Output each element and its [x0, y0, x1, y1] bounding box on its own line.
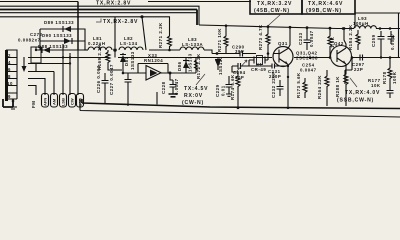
node x70 y63 [69, 62, 71, 64]
resistor R174 [236, 72, 240, 107]
node x63 y57 [62, 56, 64, 58]
voltage label TX:4.5V pointer [196, 74, 205, 85]
wire pin row y72 [28, 72, 54, 96]
ground C228 [169, 94, 178, 97]
svg-text:6: 6 [8, 67, 11, 72]
wire top bus A [0, 1, 251, 3]
node rail x344 [343, 27, 346, 30]
wire drop x78 [77, 2, 79, 51]
node x213 y53 [216, 52, 219, 55]
trimmer C294 [232, 63, 244, 72]
op-amp X33 triangle [146, 66, 161, 81]
wire X33 out down to C228 [170, 73, 173, 80]
svg-text:R184 2.2K: R184 2.2K [348, 24, 353, 50]
node y57 x330 [329, 56, 332, 59]
mode label AFN box [42, 94, 49, 108]
node emitter bus [287, 76, 289, 78]
svg-text:D86: D86 [177, 61, 182, 71]
resistor R273 [266, 27, 270, 54]
wire pin9 down [3, 99, 13, 107]
wire drop x355 to L93 line [354, 13, 356, 28]
resistor R264 [325, 70, 329, 106]
wire right column [389, 58, 391, 67]
svg-text:LS-133A: LS-133A [182, 42, 204, 47]
voltage label TX,RX:4.0V pointer [350, 78, 357, 87]
svg-text:0.0047: 0.0047 [390, 33, 395, 50]
svg-text:9: 9 [8, 94, 11, 99]
svg-text:Q31: Q31 [278, 41, 288, 46]
node pin9 [12, 100, 15, 103]
svg-text:10K: 10K [371, 83, 381, 88]
test point arrow [23, 57, 25, 70]
node rail x330 [329, 27, 332, 30]
svg-text:R271 2.2K: R271 2.2K [158, 22, 163, 48]
svg-text:FM: FM [31, 101, 36, 108]
svg-text:C259: C259 [371, 34, 376, 47]
wire L81 left [84, 49, 88, 51]
wire vert x78 [77, 50, 79, 95]
node rail x307 [306, 26, 309, 29]
svg-text:D89 1SS133: D89 1SS133 [44, 20, 74, 25]
diode D89 [64, 26, 71, 32]
svg-text:AFN: AFN [43, 98, 48, 106]
wire L83 leads [149, 50, 212, 54]
wire vert x115 from bus E [114, 17, 116, 48]
svg-text:CR-49: CR-49 [251, 67, 266, 72]
capacitor C298 [378, 31, 385, 58]
svg-text:1SS133: 1SS133 [218, 56, 223, 75]
svg-text:2: 2 [8, 53, 11, 58]
resistor R184 [356, 30, 360, 50]
svg-text:0.0047: 0.0047 [309, 30, 314, 47]
wire Q31 collector up [288, 27, 290, 48]
mode label USB box [77, 94, 84, 108]
svg-text:R264 22K: R264 22K [317, 75, 322, 99]
svg-text:C226 0.003: C226 0.003 [96, 65, 101, 93]
wire Q31 emitter down [287, 65, 289, 106]
wire right edge vertical [398, 13, 400, 58]
capacitor C290 [236, 51, 248, 57]
resistor R173 [303, 78, 307, 98]
wire Q42 emitter down [345, 64, 347, 70]
capacitor C229 [226, 76, 233, 96]
wire x352 down [345, 58, 352, 85]
wire pin row y85 [28, 86, 36, 96]
svg-text:0.0047: 0.0047 [174, 78, 179, 95]
node rail x268 [267, 25, 270, 28]
capacitor C265 [387, 86, 394, 98]
mode label LSB box [60, 94, 67, 108]
svg-text:(45B,CW-N): (45B,CW-N) [254, 8, 290, 14]
diode D86 [185, 57, 187, 73]
pointer to rail [268, 14, 281, 26]
svg-text:R273 4.7K: R273 4.7K [258, 24, 263, 50]
wire bottom bus 2 [80, 99, 400, 117]
svg-text:1SS133: 1SS133 [188, 53, 193, 72]
transistor Q31 [273, 47, 293, 67]
svg-text:TX:4.5V: TX:4.5V [184, 86, 208, 92]
svg-text:0.01: 0.01 [221, 85, 226, 96]
resistor R288 [344, 70, 348, 106]
node rail x290 [289, 26, 292, 29]
box label TX,RX:3.2V (SSB,CW-N) [250, 0, 302, 14]
mode label AM box [51, 94, 58, 108]
node y57 x352 [351, 56, 354, 59]
connector J1 body [5, 50, 8, 101]
svg-text:RN1204: RN1204 [144, 58, 163, 63]
svg-text:TX,RX:4.6V: TX,RX:4.6V [308, 1, 343, 7]
inductor L82 coil [119, 47, 143, 50]
wire junction drop [114, 50, 116, 58]
transistor Q42 [331, 46, 352, 67]
node y28 x380 [379, 27, 382, 30]
svg-text:LS-134: LS-134 [120, 41, 138, 46]
wire top bus E [0, 17, 170, 34]
capacitor C231 [249, 64, 288, 69]
wire C272 to node [35, 47, 37, 50]
svg-text:R174 5.6K: R174 5.6K [230, 74, 235, 100]
node rail x226 [225, 24, 228, 27]
svg-text:R172 2.2K: R172 2.2K [196, 53, 201, 79]
capacitor C297 [352, 55, 372, 61]
capacitor C226 [102, 73, 109, 104]
capacitor C293 [304, 28, 311, 50]
crystal X1 [257, 56, 263, 65]
svg-text:R271 10K: R271 10K [217, 28, 222, 52]
svg-text:C229: C229 [215, 84, 220, 97]
node x268 y53 [267, 52, 270, 55]
wire right of box to edge [355, 0, 400, 13]
svg-text:1SS133: 1SS133 [130, 51, 135, 70]
node bus x288 [287, 106, 290, 109]
svg-text:RX:0V: RX:0V [184, 93, 203, 99]
wire bottom bus 1 [82, 99, 400, 109]
wire main net y57 [36, 57, 272, 59]
svg-text:R173 5.6K: R173 5.6K [296, 72, 301, 98]
op-amp X33 inner arrow [150, 70, 158, 77]
node x381 y57 [380, 56, 382, 58]
wire vert x63 [62, 44, 64, 95]
svg-text:AM: AM [52, 98, 57, 105]
diode D90 [64, 38, 71, 44]
inductor L93 coil [354, 26, 376, 29]
svg-text:(99B,CW-N): (99B,CW-N) [306, 8, 342, 14]
node D88 left [35, 49, 37, 51]
svg-text:TX,RX:2.8V: TX,RX:2.8V [96, 1, 131, 7]
wire y57 mid [294, 57, 400, 59]
diode D84 [217, 57, 219, 70]
resistor R271 vert [224, 26, 228, 54]
inductor L81 coil [88, 47, 112, 50]
resistor R283 [328, 28, 332, 57]
wire C272 bottom [35, 63, 37, 72]
svg-text:8: 8 [8, 74, 11, 79]
svg-text:0.0047: 0.0047 [300, 68, 317, 73]
node X33 out [169, 72, 172, 75]
svg-text:(SSB,CW-N): (SSB,CW-N) [337, 98, 374, 104]
box label TX,RX:4.6V (SSB,CW-N) [302, 0, 355, 14]
svg-text:22P: 22P [354, 67, 363, 72]
svg-text:C233: C233 [298, 32, 303, 45]
node y57 x310 [309, 56, 312, 59]
svg-text:C227 0.0047: C227 0.0047 [109, 64, 114, 95]
wire y53 row [212, 54, 256, 67]
resistor R169 [106, 50, 122, 70]
resistor R271 [168, 34, 172, 50]
svg-text:CW: CW [70, 98, 75, 105]
svg-text:100K: 100K [392, 71, 397, 84]
wire drop x146 [142, 17, 146, 50]
wire D89 row [40, 29, 85, 41]
wire D88 row [36, 41, 85, 50]
wire top bus D [0, 12, 197, 14]
svg-text:TX,RX-2.8V: TX,RX-2.8V [103, 19, 138, 25]
wire crystal to node [248, 54, 268, 67]
node y57 x390 [389, 56, 392, 59]
wire Q42 collector [344, 29, 346, 49]
mode label CW box [69, 94, 76, 108]
svg-text:R288 1K: R288 1K [335, 76, 340, 97]
node emitter x288 y66 [287, 65, 289, 67]
inductor L83 coil [180, 47, 204, 50]
ground pin9 [9, 107, 17, 109]
wire label bracket [96, 19, 101, 23]
node x169 y50 [168, 49, 171, 52]
svg-text:TX,RX:4.0V: TX,RX:4.0V [345, 90, 380, 96]
wire top bus C (thick) [0, 9, 197, 11]
node L81/L82 [113, 48, 117, 52]
wire top bus B [0, 6, 199, 25]
capacitor C272 body [31, 47, 41, 63]
svg-text:100μH: 100μH [353, 21, 369, 26]
node x123 y73 [122, 72, 125, 75]
svg-text:10: 10 [7, 81, 13, 86]
svg-text:4: 4 [8, 60, 11, 65]
wire X33 input [138, 64, 196, 74]
wire diode to X33 input [123, 64, 140, 73]
node bus E x78 [77, 16, 79, 18]
svg-text:C272: C272 [30, 32, 43, 37]
wire D90 row [40, 29, 85, 41]
capacitor C299 [388, 31, 395, 44]
wire X33 out to D86 [195, 57, 197, 73]
node y57 x70 [69, 56, 71, 58]
svg-text:LSB: LSB [61, 98, 66, 106]
wire collector rail [199, 25, 400, 29]
svg-text:R178: R178 [382, 71, 387, 84]
resistor R278 [388, 66, 392, 86]
node y28 x343 [342, 27, 345, 30]
node bus x216 [237, 106, 240, 109]
node y28 x390 [389, 27, 392, 30]
svg-text:D90 1SS133: D90 1SS133 [42, 33, 72, 38]
capacitor C228 [170, 80, 177, 94]
svg-text:(CW-N): (CW-N) [182, 100, 204, 106]
svg-text:C228: C228 [161, 81, 166, 94]
wire pin row y78 [28, 79, 45, 96]
svg-text:TX,RX:3.2V: TX,RX:3.2V [257, 1, 292, 7]
wire pin row y63 [28, 63, 70, 65]
svg-text:C232 220P: C232 220P [271, 71, 276, 98]
svg-text:0.0082x7: 0.0082x7 [18, 38, 41, 43]
wire pin row y57 [28, 57, 63, 59]
capacitor C232 [277, 80, 284, 96]
diode D85 [120, 55, 126, 62]
resistor R172 [195, 60, 198, 70]
capacitor C227 [125, 73, 132, 106]
wire bus1 corner up [156, 92, 158, 104]
wire bus C drop [196, 10, 198, 26]
wire vert x70 [69, 53, 71, 95]
node bus E x144 [140, 15, 143, 18]
diode D88 [43, 47, 50, 53]
